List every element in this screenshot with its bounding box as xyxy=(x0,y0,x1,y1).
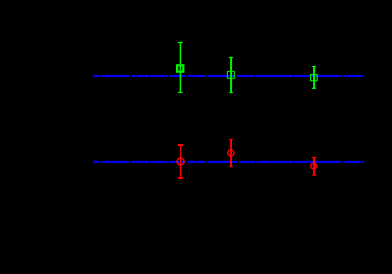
top dashed blue line xyxy=(94,75,364,77)
red error bar 2 xyxy=(229,139,233,167)
red error bar 1 xyxy=(178,144,183,179)
green error bar 2 xyxy=(229,57,233,93)
red circle marker 2 xyxy=(228,150,234,156)
red circle marker 3 xyxy=(311,163,317,169)
bottom dashed blue line xyxy=(94,161,365,163)
green square marker 2 xyxy=(227,71,234,78)
green square marker 3 xyxy=(311,75,318,81)
green error bar 1 xyxy=(178,42,183,93)
red circle marker 1 xyxy=(177,158,184,165)
green error bar 3 xyxy=(312,66,316,89)
red error bar 3 xyxy=(312,157,317,176)
green square marker 1 xyxy=(177,65,183,71)
